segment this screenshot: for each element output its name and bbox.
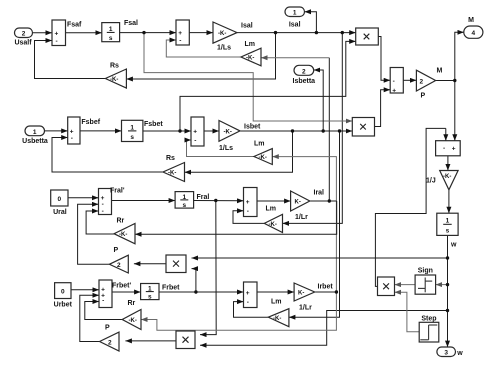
svg-text:Isal: Isal — [241, 23, 253, 30]
svg-text:1/Ls: 1/Ls — [219, 145, 233, 152]
svg-text:+: + — [392, 88, 396, 95]
svg-text:-: - — [56, 38, 58, 45]
svg-text:2: 2 — [117, 262, 121, 269]
svg-text:-: - — [247, 299, 249, 306]
svg-text:Fsal: Fsal — [124, 20, 138, 27]
svg-text:-K-: -K- — [259, 155, 267, 161]
svg-text:Irbet: Irbet — [318, 284, 334, 291]
svg-text:Lm: Lm — [254, 141, 265, 148]
svg-text:Rr: Rr — [117, 218, 125, 225]
svg-text:0: 0 — [57, 196, 61, 203]
svg-text:M: M — [468, 17, 474, 24]
svg-text:-K-: -K- — [246, 56, 254, 62]
svg-text:4: 4 — [471, 30, 475, 37]
svg-text:Isal: Isal — [289, 22, 301, 29]
svg-text:Rr: Rr — [128, 300, 136, 307]
svg-text:-: - — [102, 298, 104, 305]
svg-text:s: s — [446, 228, 450, 235]
svg-text:-: - — [102, 208, 104, 215]
svg-text:2: 2 — [22, 31, 26, 38]
svg-text:Fral: Fral — [197, 194, 210, 201]
svg-text:1: 1 — [33, 129, 37, 136]
svg-text:Fsaf: Fsaf — [67, 22, 82, 29]
svg-text:+: + — [178, 30, 182, 37]
svg-text:Lm: Lm — [266, 206, 277, 213]
svg-text:Lm: Lm — [271, 299, 282, 306]
svg-text:Fral': Fral' — [110, 188, 125, 195]
svg-text:-K-: -K- — [224, 129, 232, 135]
svg-text:-: - — [443, 145, 445, 152]
svg-text:Urbet: Urbet — [54, 302, 73, 309]
svg-text:-: - — [194, 137, 196, 144]
svg-text:K-: K- — [295, 200, 301, 206]
svg-text:-K-: -K- — [110, 77, 118, 83]
svg-text:P: P — [421, 93, 426, 100]
svg-text:2: 2 — [420, 79, 424, 86]
svg-text:0: 0 — [61, 289, 65, 296]
svg-text:2: 2 — [302, 68, 306, 75]
svg-text:Usbetta: Usbetta — [22, 138, 48, 145]
svg-text:s: s — [182, 202, 186, 209]
svg-text:Sign: Sign — [418, 268, 433, 275]
svg-text:-K-: -K- — [273, 316, 281, 322]
svg-text:-K-: -K- — [269, 222, 277, 228]
svg-text:Lm: Lm — [245, 41, 256, 48]
svg-text:K-: K- — [298, 291, 304, 297]
svg-text:+: + — [246, 290, 250, 297]
svg-text:1/J: 1/J — [426, 178, 436, 185]
svg-text:-K-: -K- — [218, 31, 226, 37]
svg-text:-K-: -K- — [443, 174, 451, 180]
svg-text:s: s — [109, 35, 113, 42]
svg-text:Usalf: Usalf — [14, 40, 32, 47]
svg-text:Frbet': Frbet' — [112, 283, 132, 290]
svg-text:2: 2 — [108, 340, 112, 347]
svg-text:Step: Step — [421, 315, 436, 322]
svg-text:w: w — [450, 242, 457, 249]
svg-text:-K-: -K- — [168, 171, 176, 177]
svg-text:s: s — [148, 294, 152, 301]
svg-text:Frbet: Frbet — [162, 285, 180, 292]
svg-text:P: P — [114, 247, 119, 254]
svg-text:Isbet: Isbet — [244, 124, 261, 131]
svg-text:Rs: Rs — [110, 63, 119, 70]
svg-text:P: P — [105, 325, 110, 332]
svg-text:-K-: -K- — [119, 232, 127, 238]
svg-text:1/Lr: 1/Lr — [299, 305, 312, 312]
svg-text:+: + — [193, 129, 197, 136]
svg-text:1: 1 — [446, 218, 450, 225]
svg-text:s: s — [130, 134, 134, 141]
svg-text:1: 1 — [130, 124, 134, 131]
svg-text:+: + — [246, 199, 250, 206]
svg-text:-: - — [179, 37, 181, 44]
svg-text:3: 3 — [444, 350, 448, 357]
svg-text:Fsbet: Fsbet — [144, 121, 163, 128]
svg-text:w: w — [456, 350, 463, 357]
svg-text:Rs: Rs — [166, 155, 175, 162]
svg-text:+: + — [55, 30, 59, 37]
svg-text:M: M — [437, 68, 443, 75]
svg-text:-K-: -K- — [129, 318, 137, 324]
svg-text:-: - — [247, 208, 249, 215]
svg-text:1/Lr: 1/Lr — [295, 214, 308, 221]
svg-text:-: - — [71, 135, 73, 142]
svg-text:Fsbef: Fsbef — [81, 119, 100, 126]
svg-text:Ural: Ural — [53, 209, 67, 216]
svg-text:1/Ls: 1/Ls — [217, 45, 231, 52]
svg-text:Isbetta: Isbetta — [293, 78, 316, 85]
svg-text:1: 1 — [293, 10, 297, 17]
svg-text:1: 1 — [109, 26, 113, 33]
svg-text:Iral: Iral — [314, 190, 325, 197]
svg-text:+: + — [452, 145, 456, 152]
svg-text:-: - — [393, 78, 395, 85]
